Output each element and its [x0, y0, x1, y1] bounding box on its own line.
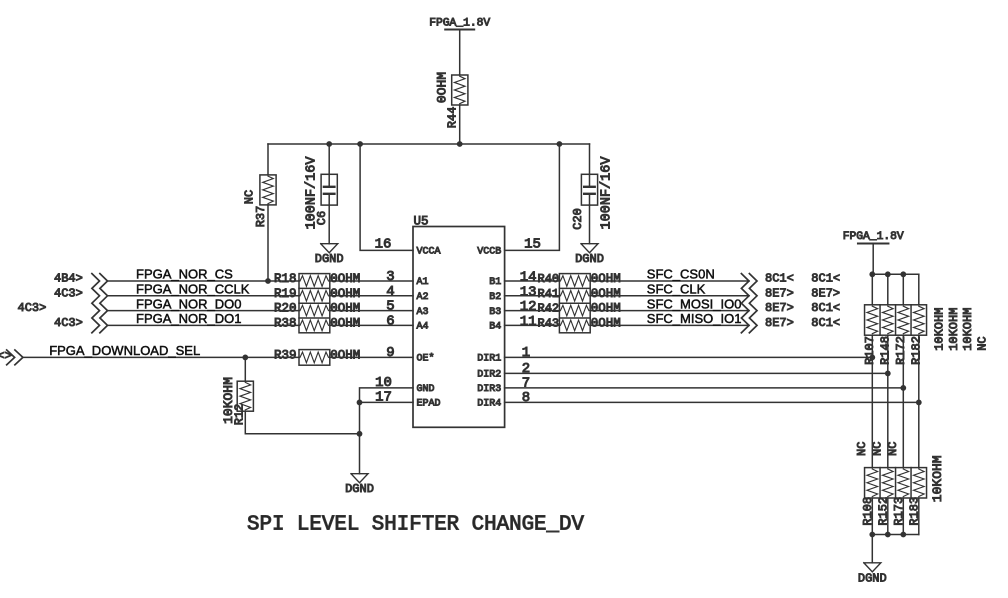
svg-text:B3: B3 — [489, 307, 501, 318]
svg-text:8C1<: 8C1< — [765, 272, 794, 286]
svg-text:0OHM: 0OHM — [330, 272, 360, 286]
svg-text:SPI LEVEL SHIFTER CHANGE_DV: SPI LEVEL SHIFTER CHANGE_DV — [247, 513, 584, 536]
svg-text:FPGA_NOR_DO1: FPGA_NOR_DO1 — [136, 311, 241, 326]
svg-text:14: 14 — [520, 270, 537, 286]
svg-text:FPGA_NOR_DO0: FPGA_NOR_DO0 — [136, 296, 241, 311]
svg-text:0OHM: 0OHM — [591, 302, 621, 316]
svg-text:8E7>: 8E7> — [765, 301, 794, 315]
svg-text:4C3>: 4C3> — [54, 316, 83, 330]
svg-text:VCCB: VCCB — [477, 247, 501, 258]
svg-text:10KOHM: 10KOHM — [930, 455, 945, 502]
svg-text:A4: A4 — [417, 322, 429, 333]
svg-text:8E7>: 8E7> — [811, 286, 840, 300]
svg-text:11: 11 — [520, 314, 537, 330]
svg-text:5: 5 — [386, 299, 394, 315]
svg-text:R19: R19 — [274, 287, 297, 301]
svg-text:C20: C20 — [571, 208, 585, 230]
svg-text:FPGA_NOR_CCLK: FPGA_NOR_CCLK — [136, 282, 250, 297]
svg-text:8C1<: 8C1< — [811, 301, 840, 315]
svg-text:4: 4 — [386, 284, 394, 300]
svg-text:NC: NC — [871, 442, 885, 456]
svg-text:R182: R182 — [910, 336, 924, 365]
svg-text:0OHM: 0OHM — [330, 348, 360, 362]
svg-text:13: 13 — [520, 284, 537, 300]
svg-text:0OHM: 0OHM — [435, 72, 450, 103]
svg-text:8E7>: 8E7> — [765, 316, 794, 330]
svg-text:0OHM: 0OHM — [591, 316, 621, 330]
svg-text:R43: R43 — [538, 316, 560, 330]
svg-text:3: 3 — [386, 269, 394, 285]
svg-text:A3: A3 — [417, 307, 429, 318]
svg-text:NC: NC — [855, 442, 869, 456]
svg-text:R148: R148 — [879, 336, 893, 365]
svg-text:DIR4: DIR4 — [477, 399, 501, 410]
svg-text:R44: R44 — [446, 107, 460, 129]
svg-text:1: 1 — [522, 345, 530, 361]
svg-text:R39: R39 — [274, 348, 297, 362]
svg-text:R42: R42 — [538, 302, 560, 316]
svg-text:10KOHM: 10KOHM — [947, 308, 961, 351]
svg-text:NC: NC — [243, 190, 257, 204]
svg-text:C6: C6 — [315, 211, 329, 225]
svg-text:4C3>: 4C3> — [18, 301, 47, 315]
svg-text:R12: R12 — [233, 404, 247, 426]
svg-text:0OHM: 0OHM — [591, 287, 621, 301]
svg-text:DGND: DGND — [575, 252, 604, 266]
svg-text:100NF/16V: 100NF/16V — [599, 156, 614, 230]
svg-text:10KOHM: 10KOHM — [961, 308, 975, 351]
svg-text:15: 15 — [524, 236, 541, 252]
svg-text:OE*: OE* — [417, 353, 435, 365]
svg-text:R18: R18 — [274, 272, 297, 286]
svg-text:4B4>: 4B4> — [54, 272, 83, 286]
svg-text:DIR1: DIR1 — [477, 354, 501, 365]
svg-text:FPGA_DOWNLOAD_SEL: FPGA_DOWNLOAD_SEL — [49, 343, 200, 358]
svg-text:EPAD: EPAD — [417, 399, 441, 410]
svg-text:0OHM: 0OHM — [330, 287, 360, 301]
svg-text:SFC_CLK: SFC_CLK — [647, 282, 706, 297]
svg-text:0OHM: 0OHM — [330, 302, 360, 316]
svg-text:6: 6 — [386, 313, 394, 329]
svg-text:DGND: DGND — [858, 571, 887, 585]
svg-text:B1: B1 — [489, 277, 501, 288]
svg-text:10KOHM: 10KOHM — [933, 308, 947, 351]
svg-text:SFC_CS0N: SFC_CS0N — [647, 267, 715, 282]
svg-text:8C1<: 8C1< — [811, 316, 840, 330]
svg-text:4C3>: 4C3> — [54, 286, 83, 300]
svg-text:8: 8 — [522, 390, 530, 406]
svg-text:9: 9 — [386, 345, 394, 361]
svg-text:A2: A2 — [417, 292, 429, 303]
svg-text:R107: R107 — [863, 336, 877, 365]
svg-text:R20: R20 — [274, 302, 297, 316]
svg-text:R38: R38 — [274, 316, 297, 330]
svg-text:8E7>: 8E7> — [765, 286, 794, 300]
svg-text:A1: A1 — [417, 277, 429, 288]
svg-text:GND: GND — [417, 384, 435, 395]
svg-text:SFC_MISO_IO1: SFC_MISO_IO1 — [647, 311, 742, 326]
svg-text:DGND: DGND — [315, 252, 344, 266]
svg-text:B2: B2 — [489, 292, 501, 303]
svg-text:NC: NC — [886, 442, 900, 456]
svg-text:FPGA_1.8V: FPGA_1.8V — [429, 17, 490, 29]
svg-text:U5: U5 — [414, 215, 429, 229]
svg-text:DIR2: DIR2 — [477, 370, 501, 381]
svg-text:R172: R172 — [894, 336, 908, 365]
svg-text:FPGA_NOR_CS: FPGA_NOR_CS — [136, 267, 233, 282]
svg-text:FPGA_1.8V: FPGA_1.8V — [843, 231, 904, 243]
svg-text:NC: NC — [975, 336, 989, 350]
svg-text:0OHM: 0OHM — [330, 316, 360, 330]
svg-text:B4: B4 — [489, 322, 501, 333]
svg-text:16: 16 — [375, 236, 392, 252]
svg-text:R41: R41 — [538, 287, 560, 301]
svg-text:8C1<: 8C1< — [811, 272, 840, 286]
svg-text:R37: R37 — [254, 206, 268, 228]
svg-text:0OHM: 0OHM — [591, 272, 621, 286]
svg-text:12: 12 — [520, 299, 537, 315]
svg-text:DIR3: DIR3 — [477, 384, 501, 395]
svg-text:DGND: DGND — [345, 482, 374, 496]
svg-text:VCCA: VCCA — [417, 247, 441, 258]
svg-text:R40: R40 — [538, 272, 560, 286]
svg-text:SFC_MOSI_IO0: SFC_MOSI_IO0 — [647, 296, 742, 311]
